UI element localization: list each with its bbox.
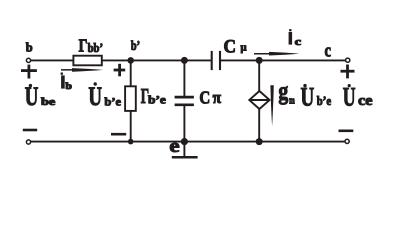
svg-text:U: U <box>25 82 39 111</box>
svg-text:b’e: b’e <box>148 93 166 107</box>
svg-text:C: C <box>224 37 237 58</box>
svg-text:c: c <box>325 40 332 61</box>
svg-text:U: U <box>301 82 315 111</box>
svg-text:C: C <box>199 88 210 108</box>
svg-text:Γ: Γ <box>79 36 88 56</box>
svg-text:g: g <box>278 78 288 105</box>
svg-text:b: b <box>26 41 33 55</box>
svg-text:b’e: b’e <box>317 93 332 108</box>
svg-text:b: b <box>66 81 72 91</box>
svg-text:π: π <box>213 88 222 107</box>
svg-text:b’e: b’e <box>104 94 121 108</box>
svg-text:U: U <box>343 83 356 112</box>
svg-text:c: c <box>295 36 302 48</box>
svg-text:be: be <box>41 97 56 108</box>
svg-text:bb’: bb’ <box>88 41 103 55</box>
svg-text:e: e <box>169 136 179 157</box>
svg-text:μ: μ <box>241 42 247 53</box>
svg-text:U: U <box>88 82 102 111</box>
svg-text:m: m <box>289 96 295 107</box>
svg-text:ce: ce <box>358 93 372 109</box>
svg-text:b’: b’ <box>131 38 140 53</box>
